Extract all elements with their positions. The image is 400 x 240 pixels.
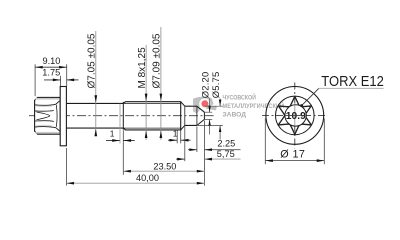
dim Ø7.09 arrows [160,94,163,102]
bolt head scallop shading under line 1 [35,105,52,108]
bolt head (external torx, side view) outline [35,97,61,134]
bolt head lobe chevron curve [37,112,50,120]
thread end extension lines below [176,131,178,144]
dim 9.10 line with arrows [35,66,67,68]
shank outline [66,103,123,128]
dim Ø5.75 vertical line [219,99,221,107]
leader line TORX E12 [302,88,319,105]
watermark logo emblem [193,97,217,114]
svg-text:Ø7.05 ±0.05: Ø7.05 ±0.05 [87,33,98,88]
chamfer dim 1 (left) lines and arrows [106,140,120,142]
torx star triangle up [278,96,311,125]
svg-text:9.10: 9.10 [43,56,61,66]
bolt head top shading strip [35,98,59,100]
tip long extension line [203,121,205,186]
dim M 8x1,25 line through thread [145,45,147,140]
dim Ø5.75 extension horizontals [206,105,223,107]
bolt head scallop line 3 [35,120,54,123]
svg-text:Ø7.09 ±0.05: Ø7.09 ±0.05 [152,33,163,88]
flange circle Ø17 [266,87,324,145]
svg-text:Ø 17: Ø 17 [280,148,305,160]
centerline segment inside grade circle horizontal [286,114,306,116]
bolt head scallop line 1 [35,101,60,105]
dim 2.25 line with arrows [188,149,197,151]
svg-text:10.9: 10.9 [286,111,306,122]
grade mark circle [285,105,306,126]
torx star triangle down [278,106,311,134]
dim Ø2.20 extension horizontals [205,111,213,113]
centerline of bolt side view [29,115,214,117]
tip end face [203,112,205,119]
svg-text:TORX E12: TORX E12 [321,74,384,90]
bolt head scallop shading above line 4 [35,124,52,127]
flange (washer face) of bolt [60,87,66,146]
dim Ø5.75 arrows [219,100,222,107]
dim Ø2.20 vertical line [209,99,211,113]
cone start extension line [196,127,198,153]
dog point cylinder [185,106,197,125]
svg-text:ЧУСОВСКОЙ: ЧУСОВСКОЙ [223,92,257,101]
thread start extension below [122,130,124,175]
dim Ø2.20 arrows [208,106,211,113]
bolt head rear lobe arc [55,105,58,127]
dim 40,00 line with arrows [66,182,204,184]
svg-text:M 8x1,25: M 8x1,25 [137,47,148,89]
centerline segment inside grade circle vertical [294,106,296,126]
dim 23.50 line with arrows [123,170,204,172]
svg-text:2.25: 2.25 [217,138,235,148]
dim Ø17 line with arrows [265,160,324,162]
bolt head scallop line 4 [35,127,60,131]
thread start vertical line [122,102,124,130]
dim 1.75 line with arrows [44,79,60,81]
dim 9.10 extension lines [34,64,36,96]
svg-text:23.50: 23.50 [153,161,176,171]
dim 1.75 extension line [60,76,62,86]
dim Ø7.05 ±0.05 line through shank [95,31,97,136]
thread section outline (major diameter) [123,102,180,130]
end view horizontal centerline [262,114,328,116]
thread runout line [119,104,121,144]
cone start vertical [196,106,198,125]
svg-text:Ø2.20: Ø2.20 [199,72,210,99]
svg-text:1: 1 [173,129,178,139]
dim Ø17 extension lines [264,119,266,165]
thread minor diameter lines [123,103,180,128]
dim Ø7.05 arrows [94,95,97,103]
head circumscribed circle [276,96,315,135]
bolt head scallop line 2 [35,110,54,113]
end view vertical centerline [294,83,296,149]
svg-text:ЗАВОД: ЗАВОД [223,112,247,119]
svg-text:1.75: 1.75 [42,68,60,78]
tip cone [197,106,205,125]
chamfer dim 1 (right) lines and arrows [168,139,177,141]
flange right face extension below [65,148,67,186]
thread end chamfer to dog point [181,102,185,130]
dog point start vertical [184,106,186,125]
bolt head bottom shading strip [35,132,59,134]
svg-text:МЕТАЛЛУРГИЧЕСКИЙ: МЕТАЛЛУРГИЧЕСКИЙ [223,101,285,110]
svg-text:5,75: 5,75 [217,149,235,159]
svg-text:40,00: 40,00 [136,173,159,183]
dim Ø7.09 ±0.05 line through thread [160,27,162,140]
dim 5,75 line with arrows [176,158,185,160]
dim M 8x1,25 arrows [145,94,148,102]
svg-text:Ø5.75: Ø5.75 [210,72,221,99]
svg-text:1: 1 [110,129,115,139]
dog point extension line [184,127,186,162]
